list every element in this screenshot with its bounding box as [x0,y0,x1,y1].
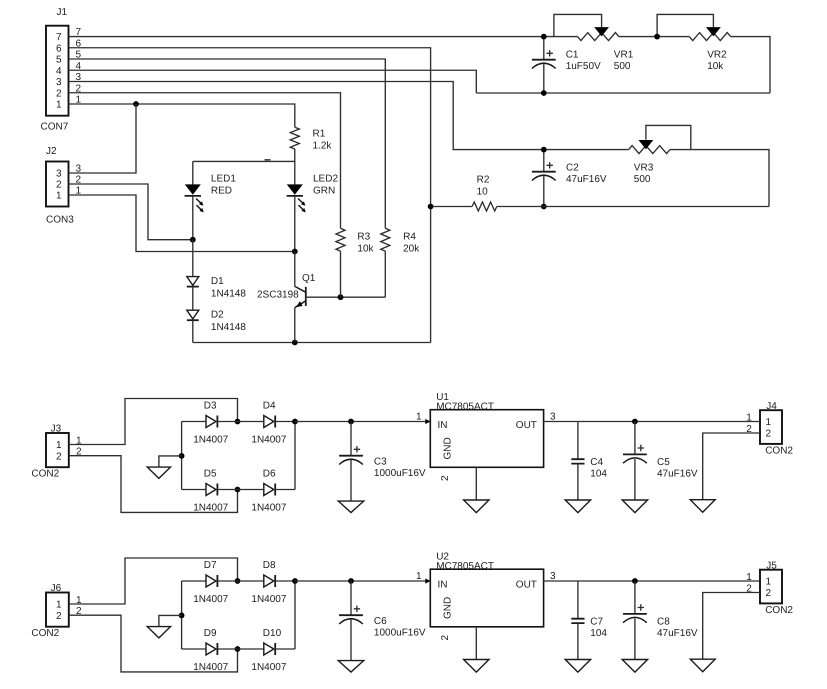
svg-text:104: 104 [590,628,607,639]
wire bridge right vertical [294,581,296,649]
svg-text:CON2: CON2 [31,469,59,480]
ground below C3 [338,501,363,512]
resistor R4 [381,228,390,251]
svg-text:J5: J5 [766,561,777,572]
svg-text:MC7805ACT: MC7805ACT [436,402,494,413]
diode D1 [192,240,194,277]
svg-text:C2: C2 [566,163,579,174]
svg-text:1: 1 [56,191,62,202]
svg-text:1.2k: 1.2k [313,141,333,152]
wire J3 pin2 to bridge bottom tap [69,456,238,513]
wire Q1 base to R3/R4 [306,296,386,298]
svg-text:7: 7 [56,32,62,43]
capacitor C2 [543,150,545,172]
svg-text:J4: J4 [766,401,777,412]
wire bridge output to U2 IN [295,580,430,582]
svg-text:1: 1 [416,571,422,582]
svg-text:D8: D8 [263,560,276,571]
svg-text:MC7805ACT: MC7805ACT [436,561,494,572]
svg-text:1N4007: 1N4007 [251,435,286,446]
svg-text:D2: D2 [211,310,224,321]
svg-text:C5: C5 [657,457,670,468]
svg-text:2: 2 [56,88,62,99]
transistor Q1 (2SC3198) [294,252,296,287]
capacitor C5 [634,422,636,455]
svg-text:D7: D7 [204,560,217,571]
svg-text:2: 2 [56,451,62,462]
svg-text:VR2: VR2 [707,50,727,61]
svg-text:2: 2 [440,635,451,641]
connector J6 (CON2) [46,593,69,627]
diode D9 [182,648,206,650]
svg-text:VR3: VR3 [634,163,654,174]
ground at bridge center tap [159,615,182,626]
svg-text:6: 6 [56,43,62,54]
U2 pin 1 arrow [425,578,430,583]
svg-text:CON3: CON3 [46,215,74,226]
svg-text:47uF16V: 47uF16V [657,469,698,480]
capacitor C8 [634,581,636,614]
svg-text:C4: C4 [590,457,603,468]
svg-text:C6: C6 [374,616,387,627]
wire U2 OUT rail [544,580,760,582]
connector J3 (CON2) [46,433,69,467]
LED LED2 [294,161,296,184]
diode D8 [238,580,264,582]
svg-text:1N4007: 1N4007 [193,435,228,446]
potentiometer VR2 [689,33,730,41]
svg-text:3: 3 [56,169,62,180]
svg-text:20k: 20k [403,244,420,255]
svg-text:500: 500 [634,174,651,185]
svg-text:1: 1 [56,440,62,451]
wire bridge right vertical [294,422,296,490]
node junction J1 pin1 / J2 pin3 [133,101,139,107]
capacitor C6 [350,581,352,615]
svg-text:C3: C3 [374,457,387,468]
potentiometer VR1 [578,33,619,41]
svg-text:4: 4 [56,66,62,77]
wire J3 pin1 to bridge top tap [69,399,238,445]
connector J1 (CON7) [46,26,69,116]
wire J1 pin4 jog [69,70,477,93]
svg-text:1N4007: 1N4007 [251,662,286,673]
svg-text:1: 1 [56,100,62,111]
diode D5 [182,489,206,491]
wire J2 pin2 to LED1 cathode rail [69,184,193,240]
svg-text:1000uF16V: 1000uF16V [374,628,426,639]
connector J2 (CON3) [46,162,69,207]
svg-text:LED1: LED1 [211,174,236,185]
svg-text:47uF16V: 47uF16V [657,628,698,639]
svg-text:1: 1 [766,417,772,428]
svg-text:1N4148: 1N4148 [211,289,246,300]
svg-text:2: 2 [56,611,62,622]
ground below C8 [622,660,647,673]
wire J1 pin7 to VR1/VR2 top rail [69,36,578,38]
svg-text:1N4148: 1N4148 [211,322,246,333]
svg-text:3: 3 [56,77,62,88]
diode D3 [182,421,206,423]
svg-text:2: 2 [766,588,772,599]
svg-text:J6: J6 [51,583,62,594]
svg-text:C1: C1 [566,50,579,61]
wire J6 pin1 to bridge top tap [69,558,238,604]
capacitor C7 [577,581,579,619]
svg-text:RED: RED [211,186,232,197]
diode D10 [238,648,264,650]
svg-text:CON7: CON7 [41,122,69,133]
svg-text:2: 2 [766,429,772,440]
wire J1 pin3 to C2 rail [69,82,629,150]
svg-text:10k: 10k [707,61,724,72]
svg-text:1: 1 [746,413,752,424]
svg-text:1N4007: 1N4007 [251,503,286,514]
svg-text:Q1: Q1 [302,273,316,284]
wire J1 pin5 to R4 [69,59,386,228]
svg-text:D6: D6 [263,469,276,480]
svg-text:1000uF16V: 1000uF16V [374,468,426,479]
svg-text:OUT: OUT [516,420,537,431]
svg-text:J2: J2 [46,146,57,157]
wire J4 pin2 to ground [703,433,760,500]
svg-text:IN: IN [438,420,448,431]
svg-text:LED2: LED2 [313,174,338,185]
wire LED node rail [193,160,295,162]
svg-text:GND: GND [443,597,454,619]
svg-text:D5: D5 [204,469,217,480]
svg-text:1N4007: 1N4007 [193,503,228,514]
svg-text:47uF16V: 47uF16V [566,174,607,185]
capacitor C4 [577,422,579,460]
svg-text:5: 5 [56,55,62,66]
svg-text:D10: D10 [263,628,282,639]
ground at U2 GND pin [475,627,477,660]
connector J5 (CON2) [760,570,782,604]
ground below C6 [338,661,363,672]
wire J2 pin1 to LED2 cathode rail [69,195,295,252]
svg-text:1N4007: 1N4007 [193,662,228,673]
svg-text:CON2: CON2 [765,605,793,616]
diode D7 [182,580,206,582]
svg-text:D9: D9 [204,628,217,639]
wire J1 pin2 to R3 [69,93,341,229]
svg-text:OUT: OUT [516,580,537,591]
svg-text:R3: R3 [357,232,370,243]
resistor R3 [336,228,345,251]
LED LED1 [192,161,194,184]
svg-text:1: 1 [766,577,772,588]
svg-text:104: 104 [590,469,607,480]
ground below C4 [565,500,590,513]
wire bottom rail of LED/Q1 block [193,342,431,344]
wire bridge left vertical [181,422,183,490]
svg-text:R4: R4 [403,232,416,243]
diode D4 [238,421,264,423]
diode D6 [238,489,264,491]
svg-text:D3: D3 [204,401,217,412]
regulator U1 (MC7805ACT) [430,410,543,468]
capacitor C1 [543,37,545,60]
ground at U1 GND pin [475,467,477,500]
svg-text:CON2: CON2 [31,628,59,639]
capacitor C3 [350,422,352,456]
resistor R1 [290,127,299,149]
U1 pin 1 arrow [425,419,430,424]
ground below C7 [565,660,590,673]
regulator U2 (MC7805ACT) [430,569,543,627]
wire bridge output to U1 IN [295,421,430,423]
svg-text:D4: D4 [263,401,276,412]
svg-text:1N4007: 1N4007 [193,594,228,605]
connector J4 (CON2) [760,410,782,444]
wire J1 pin1 to R1 [69,104,295,127]
svg-text:J3: J3 [51,424,62,435]
svg-text:1: 1 [416,412,422,423]
wire U1 OUT rail [544,421,760,423]
diode D2 [187,310,199,319]
svg-text:1: 1 [56,600,62,611]
svg-text:R1: R1 [313,129,326,140]
svg-text:VR1: VR1 [614,50,634,61]
svg-text:10k: 10k [357,244,374,255]
svg-text:2SC3198: 2SC3198 [257,290,299,301]
svg-text:2: 2 [440,475,451,481]
svg-text:1: 1 [746,572,752,583]
svg-text:R2: R2 [477,175,490,186]
svg-text:500: 500 [614,61,631,72]
svg-text:GRN: GRN [313,186,335,197]
wire bridge left vertical [181,581,183,649]
ground at bridge center tap [159,456,182,467]
svg-text:GND: GND [443,437,454,459]
svg-text:2: 2 [56,180,62,191]
wire J6 pin2 to bridge bottom tap [69,615,238,672]
wire top-right section bottom rail [476,92,770,94]
svg-text:D1: D1 [211,276,224,287]
wire J1 pin6 vertical bus [69,48,431,343]
wire J5 pin2 to ground [703,593,760,660]
svg-text:1uF50V: 1uF50V [566,61,601,72]
svg-text:IN: IN [438,580,448,591]
svg-text:10: 10 [477,187,489,198]
potentiometer VR3 [629,146,670,154]
svg-text:C7: C7 [590,617,603,628]
svg-text:1N4007: 1N4007 [251,594,286,605]
resistor R2 [431,206,473,208]
svg-text:J1: J1 [57,7,68,18]
ground below C5 [622,500,647,513]
svg-text:CON2: CON2 [765,445,793,456]
wire J2 pin3 up to node [69,104,137,173]
svg-text:C8: C8 [657,617,670,628]
